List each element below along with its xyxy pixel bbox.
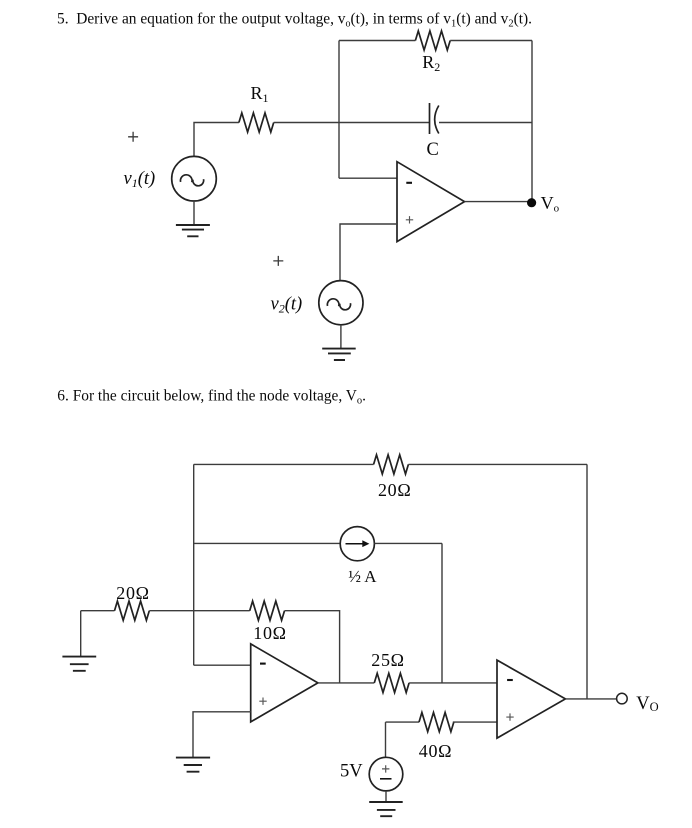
wire: 20ohm left to 10ohm [149,610,249,612]
wire: v2 to U1 non-inverting input [340,224,397,280]
5V + mark [382,765,389,772]
ground (below v1) [193,201,195,225]
svg-text:5V: 5V [340,761,363,781]
svg-text:5. Derive an equation for the: 5. Derive an equation for the output vol… [57,10,532,29]
op-amp U1 [397,162,465,242]
wire: 25ohm to U3 inverting input [409,682,497,684]
source v1 sine mark [180,175,203,186]
U3 non-inverting pin mark [506,713,513,720]
source V1 5V circle [369,757,403,791]
node Vo open terminal [617,693,628,704]
v2 polarity + [273,256,283,266]
wire: right rail [586,464,588,699]
wire: U2 non-inverting input to ground [193,712,251,758]
svg-text:C: C [427,140,439,160]
ground (below U2 + input) [176,758,210,772]
wire: 10ohm feedback down to U2 output [285,611,340,683]
ground (below 5V source) [385,791,387,802]
source v2 sine mark [327,299,350,310]
svg-text:20Ω: 20Ω [378,480,411,500]
wire: rail to current source [194,542,341,544]
svg-text:6. For the circuit below, find: 6. For the circuit below, find the node … [57,388,366,407]
wire: middle rail down [441,543,443,683]
source v2 circle [319,281,363,325]
wire: v1 top to R1 [194,123,239,157]
svg-text:40Ω: 40Ω [419,741,452,761]
ground (below v2) [340,325,342,349]
wire: corner down to 5V source [385,722,387,757]
node Vo junction dot [527,198,536,207]
resistor 40ohm [419,713,454,732]
op-amp U2 [251,644,318,722]
svg-text:v2(t): v2(t) [271,294,303,315]
current source I1 arrow [346,543,364,545]
svg-text:20Ω: 20Ω [116,583,149,603]
resistor 25ohm [374,673,409,692]
5V - mark [380,778,392,780]
wire: R2 to right rail [450,40,532,42]
wire: U3 output to node Vo [565,698,616,700]
wire: top left segment to R2 [339,40,415,42]
wire: current source to middle rail [374,542,442,544]
current source I1 circle [340,527,374,561]
svg-text:10Ω: 10Ω [253,623,286,643]
wire: U1 output to node Vo [465,201,533,203]
wire: left rail [193,464,195,665]
wire: capacitor to right rail [439,122,532,124]
resistor 20ohm left [115,601,150,620]
U2 inverting pin mark [260,663,266,665]
wire: top left segment [194,463,374,465]
wire: node A vertical rail (to R2 top and U1 inverting input) [338,41,340,179]
v1 polarity + [128,132,138,142]
op-amp U3 [497,660,565,738]
wire: left rail to U2 inverting input [194,664,251,666]
wire: 5V corner to 40ohm [386,721,420,723]
U2 non-inverting pin mark [259,698,266,705]
resistor 20ohm top [374,455,409,474]
wire: R1 to capacitor through node A [274,122,430,124]
resistor R2 [415,31,450,50]
capacitor C right curved plate [435,106,439,134]
resistor R1 [239,113,274,132]
wire: 40ohm to U3 non-inverting input [453,721,497,723]
wire: rail to U1 inverting input [339,177,397,179]
capacitor C left plate [429,103,431,134]
wire: down to ground from 20ohm left [80,611,82,657]
svg-text:v1(t): v1(t) [124,169,156,190]
source v1 circle [172,156,217,201]
U1 non-inverting pin mark [406,216,413,223]
U1 inverting pin mark [406,182,412,184]
svg-text:25Ω: 25Ω [371,650,404,670]
ground (left of circuit 6) [62,657,96,671]
svg-text:½ A: ½ A [348,567,377,586]
resistor 10ohm [250,601,285,620]
wire: top right segment [408,463,587,465]
wire: right rail down to output node [531,41,533,203]
U3 inverting pin mark [507,679,513,681]
wire: 20ohm left stub [81,610,115,612]
wire: U2 output to 25ohm [318,682,374,684]
